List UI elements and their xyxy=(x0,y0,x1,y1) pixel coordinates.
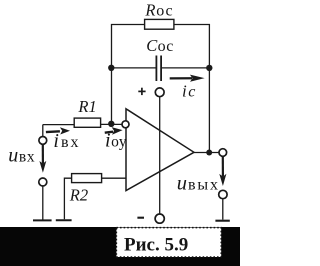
caption black bar xyxy=(0,227,240,266)
svg-text:Рис. 5.9: Рис. 5.9 xyxy=(124,235,188,256)
current arrow i_ou xyxy=(105,127,123,135)
wire output xyxy=(194,152,219,154)
op-amp triangle xyxy=(126,109,194,191)
op-amp supply line xyxy=(159,97,161,214)
ground (R2) xyxy=(56,219,72,221)
current arrow i_vx xyxy=(46,127,70,134)
node dot (feedback left / cap) xyxy=(108,65,114,71)
wire input row left xyxy=(43,124,74,126)
terminal circle uvyh bottom xyxy=(219,190,227,198)
wire uvx arrow shaft xyxy=(42,144,44,165)
wire lower terminal to ground xyxy=(222,199,224,220)
resistor R2 xyxy=(72,174,102,183)
wire capacitor branch right xyxy=(161,67,209,69)
terminal circle op-amp input xyxy=(122,121,129,128)
capacitor Coc plates xyxy=(156,56,161,82)
voltage arrow u_vyh (down) xyxy=(219,156,226,186)
terminal circle minus supply xyxy=(155,214,164,223)
node dot (output) xyxy=(206,150,212,156)
wire left source to ground xyxy=(42,186,44,220)
terminal circle plus supply xyxy=(155,88,164,97)
current arrow i_c xyxy=(170,75,205,82)
caption white box xyxy=(116,228,221,257)
terminal circle output xyxy=(219,149,227,157)
wire top feedback loop right xyxy=(174,25,210,153)
wire input row right xyxy=(101,123,123,125)
resistor Roc xyxy=(145,19,174,29)
ground (left source) xyxy=(33,219,52,221)
minus sign (supply) xyxy=(137,217,144,219)
svg-text:Cос: Cос xyxy=(146,36,173,55)
resistor R1 xyxy=(74,118,100,127)
svg-text:uвых: uвых xyxy=(177,172,220,194)
ground (output) xyxy=(215,220,229,222)
svg-text:uвх: uвх xyxy=(8,144,35,166)
svg-text:R2: R2 xyxy=(69,186,88,205)
svg-text:iс: iс xyxy=(182,82,197,101)
svg-text:R1: R1 xyxy=(77,97,96,116)
terminal circle uvx top xyxy=(39,137,47,145)
terminal circle uvx bottom xyxy=(39,178,47,186)
svg-text:iвх: iвх xyxy=(53,130,80,152)
svg-text:iоу: iоу xyxy=(105,130,127,152)
wire output to lower terminal xyxy=(222,156,224,177)
plus sign (supply) xyxy=(138,88,145,95)
node dot (feedback right / cap) xyxy=(206,65,212,71)
wire R2 left xyxy=(64,178,71,219)
wire top feedback loop left+top xyxy=(112,25,146,124)
voltage arrow u_vx (down) xyxy=(39,144,46,173)
node dot (inverting input) xyxy=(108,121,114,127)
wire R2 right xyxy=(102,177,127,179)
svg-text:Rос: Rос xyxy=(144,1,173,20)
wire capacitor branch left xyxy=(112,67,157,69)
wire left source top xyxy=(42,125,44,137)
